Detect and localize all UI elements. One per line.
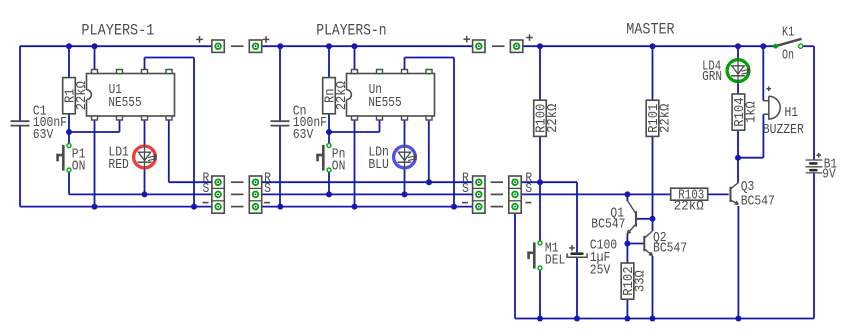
svg-text:H1: H1 [785, 105, 799, 121]
svg-text:ON: ON [332, 158, 346, 174]
svg-text:25V: 25V [590, 263, 611, 279]
svg-text:RED: RED [108, 157, 128, 173]
svg-text:1kΩ: 1kΩ [743, 101, 759, 123]
svg-text:ON: ON [72, 158, 86, 174]
svg-text:K1: K1 [782, 25, 794, 41]
svg-text:63V: 63V [33, 127, 54, 143]
svg-text:22kΩ: 22kΩ [674, 199, 704, 215]
svg-text:BLU: BLU [368, 157, 389, 173]
svg-text:22kΩ: 22kΩ [658, 104, 674, 133]
svg-text:MASTER: MASTER [626, 20, 674, 38]
svg-text:GRN: GRN [702, 69, 722, 85]
svg-text:22kΩ: 22kΩ [545, 104, 561, 133]
svg-text:On: On [782, 48, 794, 64]
svg-text:BUZZER: BUZZER [763, 122, 804, 138]
svg-text:S: S [462, 181, 469, 197]
svg-text:S: S [203, 181, 210, 197]
svg-text:S: S [264, 181, 271, 197]
svg-text:BC547: BC547 [591, 217, 625, 233]
svg-text:33Ω: 33Ω [633, 270, 649, 292]
svg-text:PLAYERS-n: PLAYERS-n [316, 21, 386, 39]
svg-text:DEL: DEL [545, 253, 566, 269]
svg-text:BC547: BC547 [741, 194, 775, 210]
svg-text:NE555: NE555 [368, 95, 401, 111]
svg-text:BC547: BC547 [653, 241, 687, 257]
svg-text:9V: 9V [822, 167, 836, 183]
svg-text:NE555: NE555 [108, 95, 141, 111]
svg-text:S: S [525, 181, 532, 197]
svg-text:63V: 63V [293, 127, 314, 143]
svg-text:PLAYERS-1: PLAYERS-1 [81, 21, 154, 39]
